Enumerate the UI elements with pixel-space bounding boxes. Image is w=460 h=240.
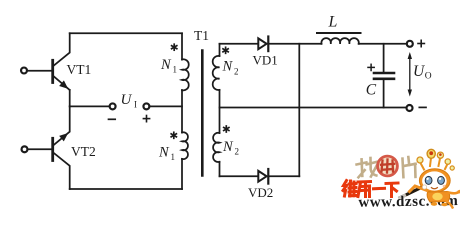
winding N1 lower (182, 132, 188, 159)
winding N2 upper (213, 56, 220, 90)
arrow UO (408, 52, 412, 97)
svg-text:N: N (158, 145, 170, 161)
stamp circle xin (378, 156, 398, 176)
wire secondary middle segment (219, 90, 221, 133)
label N1 lower (158, 145, 175, 163)
diode VD1 (258, 37, 268, 52)
svg-text:C: C (366, 81, 377, 98)
wire N2 bottom to VD2 (220, 175, 258, 177)
svg-text:L: L (328, 14, 338, 31)
label N2 lower (222, 139, 239, 157)
transistor Q VT2 (53, 106, 70, 189)
wire VD2 cathode (268, 175, 299, 177)
wire common emitters to UI (70, 105, 110, 107)
UI right terminal (143, 103, 149, 109)
label UO (413, 63, 432, 82)
polarity dot N2 lower (224, 126, 229, 132)
wire primary top segment (181, 33, 183, 59)
inductor L core line (317, 32, 361, 34)
inductor L (321, 38, 358, 44)
wire L to output plus (359, 43, 407, 45)
UI left terminal (110, 103, 116, 109)
label plus C (368, 64, 374, 70)
wire VT1 base (28, 70, 51, 72)
output plus terminal (407, 41, 413, 47)
svg-text:N: N (222, 139, 234, 155)
winding N1 upper (182, 59, 189, 90)
svg-text:VD2: VD2 (248, 185, 273, 200)
transistor Q VT1 (53, 33, 70, 90)
wire VT1 emitter down (69, 90, 71, 106)
mascot chick (410, 149, 460, 207)
winding N2 lower (213, 133, 219, 162)
label N1 upper (160, 57, 177, 75)
svg-text:N: N (222, 59, 234, 75)
output minus terminal (407, 105, 413, 111)
label minus output (419, 106, 426, 108)
label plus UI (143, 116, 149, 122)
svg-text:VT1: VT1 (67, 62, 92, 77)
label N2 upper (222, 59, 239, 77)
wire VT2 base (29, 148, 52, 150)
svg-text:VT2: VT2 (71, 144, 96, 159)
wire primary middle segment (181, 90, 183, 132)
transformer core (201, 51, 204, 176)
watermark logo (343, 149, 460, 210)
polarity dot N1 upper (172, 44, 177, 50)
svg-text:1: 1 (171, 152, 176, 162)
wire bottom rail (70, 188, 182, 190)
capacitor C (374, 44, 394, 108)
wire N2 top to VD1 (220, 43, 258, 45)
diode VD2 (258, 169, 268, 184)
svg-text:2: 2 (234, 67, 239, 77)
svg-text:T1: T1 (194, 28, 209, 43)
wire secondary top segment (219, 44, 221, 56)
wire primary bottom segment (181, 159, 183, 189)
ghost glyph zhao (356, 157, 378, 178)
wire center tap to output minus (220, 107, 407, 109)
svg-text:O: O (425, 72, 432, 82)
svg-text:2: 2 (235, 147, 240, 157)
label plus output (418, 40, 424, 46)
wire secondary bottom segment (219, 162, 221, 177)
polarity dot N2 upper (223, 47, 228, 53)
svg-text:I: I (134, 100, 137, 110)
svg-text:VD1: VD1 (253, 53, 278, 68)
svg-text:1: 1 (173, 65, 178, 75)
svg-text:N: N (160, 57, 172, 73)
polarity dot N1 lower (171, 132, 176, 138)
red text weiku yixia (343, 181, 398, 197)
svg-text:U: U (121, 92, 133, 108)
VT2 base input terminal (22, 146, 28, 152)
wire top rail (70, 32, 182, 34)
wire VD1 cathode (268, 43, 321, 45)
wire UI to center tap (150, 105, 183, 107)
label UI (121, 92, 138, 110)
pen of mascot (400, 183, 431, 198)
wire diode join vertical (298, 44, 300, 177)
ghost glyph pian (401, 156, 417, 178)
label minus UI (109, 118, 116, 120)
VT1 base input terminal (21, 68, 27, 74)
